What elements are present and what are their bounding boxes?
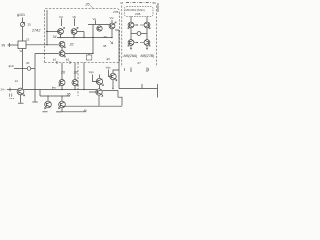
- svg-text:14: 14: [15, 79, 19, 83]
- wire C1 left: [46, 31, 59, 33]
- junction x47 y44.8: [46, 44, 47, 45]
- wire T7 bottom lead: [61, 108, 63, 112]
- svg-text:56: 56: [153, 1, 157, 5]
- wire box top to source: [22, 18, 24, 42]
- svg-text:Vgs: Vgs: [89, 70, 95, 74]
- node circle mid right box: [137, 32, 141, 36]
- gate arrow right: [140, 24, 144, 26]
- wire TA bottom: [20, 95, 22, 103]
- ground bar x35: [32, 101, 38, 103]
- wire x119 top stub: [115, 29, 119, 31]
- wire T5 gate: [89, 91, 97, 93]
- wire y88.5 right section: [119, 88, 158, 90]
- wire box bottom down: [22, 49, 24, 89]
- junction dots y89.5: [61, 89, 84, 90]
- source symbol phi101: [20, 22, 24, 26]
- transistor C4: [59, 51, 65, 58]
- wire gate vertical x47: [46, 10, 48, 45]
- transistor C3: [59, 41, 65, 48]
- right box transistor TL2: [128, 40, 134, 47]
- gate arrow left row2: [134, 42, 138, 43]
- capacitor marks: [10, 94, 12, 97]
- wire T10 bottom: [99, 85, 101, 89]
- wire TR2 down stub: [146, 68, 148, 73]
- wire Vg lead: [95, 21, 97, 25]
- svg-text:27A2: 27A2: [31, 29, 40, 33]
- svg-text:21B: 21B: [135, 12, 140, 16]
- wire row y37.5: [57, 37, 112, 39]
- dashed box right border: [121, 6, 123, 68]
- svg-text:Vds: Vds: [106, 66, 112, 70]
- wire x119 long vertical: [118, 30, 120, 89]
- wire x84 upper: [83, 32, 85, 38]
- wire Vgs lead: [93, 75, 98, 82]
- transistor C6: [109, 22, 116, 29]
- wire IN lead: [8, 44, 19, 46]
- svg-text:36: 36: [67, 93, 71, 97]
- wire Vw lead: [111, 20, 113, 23]
- svg-text:27B: 27B: [113, 10, 118, 14]
- wire y53 to C4: [35, 53, 59, 55]
- transistor C1: [58, 27, 65, 34]
- dashed box right border 2: [155, 6, 157, 68]
- wire T5 bottom: [98, 95, 100, 106]
- tick below box right: [148, 68, 150, 71]
- svg-text:30: 30: [26, 61, 30, 65]
- transistor T7: [59, 101, 66, 109]
- wire vert x62 mid: [61, 63, 63, 79]
- transistor T5: [96, 89, 103, 97]
- right box transistor TL1: [128, 22, 134, 29]
- svg-text:39: 39: [104, 35, 108, 39]
- gate arrow right row2: [140, 42, 144, 44]
- tick below box left: [124, 68, 126, 71]
- svg-text:ϕ10: ϕ10: [9, 64, 14, 68]
- transistor T9: [72, 80, 78, 87]
- wire T6 top: [47, 96, 49, 101]
- svg-text:ϕ1: ϕ1: [53, 58, 57, 62]
- node open circle 30: [27, 67, 31, 71]
- wire TR2 bottom arrow: [146, 45, 147, 49]
- wire T11 top: [113, 70, 119, 73]
- wire y96 row: [40, 95, 70, 97]
- svg-text:Vb: Vb: [73, 15, 77, 19]
- transistor C2: [71, 27, 78, 34]
- svg-text:IN: IN: [2, 44, 6, 48]
- svg-text:ϕ101: ϕ101: [17, 13, 25, 17]
- wire Vb label lead: [74, 19, 76, 27]
- wire phi10 to node: [14, 68, 27, 70]
- svg-text:M6(26A): M6(26A): [124, 54, 138, 58]
- junction x93 y53: [92, 53, 93, 54]
- svg-text:38: 38: [103, 44, 107, 48]
- tick terminal 24: [9, 88, 11, 92]
- transistor T10: [96, 78, 103, 86]
- wire TR1-TR2: [146, 28, 148, 40]
- wire C2 bottom: [73, 34, 75, 37]
- wire box to C3: [26, 44, 59, 46]
- wire TL2 down stub: [130, 68, 132, 73]
- small box 36: [86, 55, 92, 60]
- wire T9 bottom: [74, 86, 76, 90]
- wire 24 lead: [7, 89, 17, 91]
- junction dots row 37: [60, 37, 113, 38]
- rounded dashed label box M9-M11: [125, 7, 154, 17]
- wire node right: [141, 33, 147, 35]
- dashed border x78: [77, 63, 79, 97]
- svg-text:26: 26: [60, 71, 65, 75]
- wire x40 down: [39, 90, 41, 97]
- svg-text:Vd: Vd: [59, 15, 63, 19]
- wire right edge stub: [157, 84, 159, 98]
- svg-text:34: 34: [53, 35, 57, 39]
- right box transistor TR2: [144, 40, 150, 47]
- dots under capacitor: [10, 97, 15, 100]
- svg-text:ϕ2: ϕ2: [66, 58, 70, 62]
- wire bottom long y106: [63, 105, 122, 107]
- wire vertical x35: [34, 54, 36, 102]
- svg-text:Vg: Vg: [93, 17, 97, 21]
- wire C1 bottom: [60, 34, 62, 37]
- junction dots y96: [47, 95, 62, 96]
- wire C6 bottom: [111, 29, 113, 38]
- tick x70 y63: [69, 61, 71, 64]
- box 27A input block: [18, 41, 26, 49]
- svg-text:M8(27B): M8(27B): [141, 54, 155, 58]
- junction x47 y31.5: [46, 31, 47, 32]
- ground bar TA: [18, 102, 24, 104]
- wire TL1 top: [130, 17, 132, 23]
- ground bar T6: [43, 111, 48, 113]
- wire hook right: [118, 91, 122, 106]
- svg-text:28: 28: [73, 71, 78, 75]
- svg-text:25: 25: [28, 23, 32, 27]
- junction dot x113: [112, 88, 113, 89]
- tick x57 y63: [56, 61, 58, 64]
- wire C3-C4: [61, 47, 63, 50]
- wire T7 top: [61, 96, 63, 101]
- svg-text:26: 26: [85, 3, 90, 7]
- transistor T6: [45, 101, 52, 109]
- wire y112 segment: [56, 111, 86, 113]
- wire row y24.5: [88, 24, 109, 26]
- label 26 leader: [90, 6, 94, 9]
- svg-text:ϕ3: ϕ3: [107, 57, 111, 61]
- wire T5 right: [102, 90, 118, 92]
- transistor T11: [110, 73, 117, 81]
- wire TL2 bottom arrow: [130, 45, 131, 49]
- header dash-dot line top right: [126, 2, 152, 4]
- wire C2 to x84: [77, 31, 84, 33]
- wire small box stub: [88, 54, 90, 56]
- terminal tick IN: [8, 43, 10, 47]
- gate arrow left: [134, 25, 138, 26]
- source arrow: [21, 22, 25, 26]
- wire main bottom y89.5: [24, 89, 97, 91]
- wire C4 right y53.5: [65, 53, 93, 55]
- wire T8 bottom: [61, 86, 63, 90]
- wire vert x75 mid: [74, 63, 76, 79]
- ground bar T7: [57, 111, 62, 113]
- transistor C5: [97, 26, 102, 31]
- wire x84 mid vertical: [83, 63, 85, 90]
- wire Vd label lead: [61, 19, 63, 27]
- wire node left: [131, 33, 137, 35]
- arrow mark near x112: [110, 41, 113, 44]
- dashed box middle (21B block border): [45, 9, 120, 63]
- wire x142 stub: [141, 84, 143, 89]
- dashed border middle right: [119, 12, 121, 63]
- wire TR1 top: [146, 17, 148, 23]
- wire T11 bottom: [112, 80, 114, 89]
- wire TL1-TL2: [130, 28, 132, 40]
- dashed border middle bottom: [45, 62, 120, 64]
- svg-text:24~: 24~: [1, 88, 6, 92]
- transistor TA bottom-left: [17, 88, 25, 96]
- transistor T8: [59, 80, 65, 87]
- svg-text:67: 67: [138, 61, 142, 65]
- wire T10 top: [99, 75, 101, 79]
- wire Vds lead: [109, 70, 112, 77]
- svg-text:W: W: [20, 49, 23, 53]
- svg-text:15: 15: [26, 38, 30, 42]
- wire x93 vertical: [92, 25, 94, 54]
- right box transistor TR1: [144, 22, 150, 29]
- wire right edge top: [157, 3, 159, 12]
- wire node to vert: [31, 68, 35, 70]
- svg-text:32: 32: [70, 43, 74, 47]
- svg-text:40: 40: [84, 109, 88, 113]
